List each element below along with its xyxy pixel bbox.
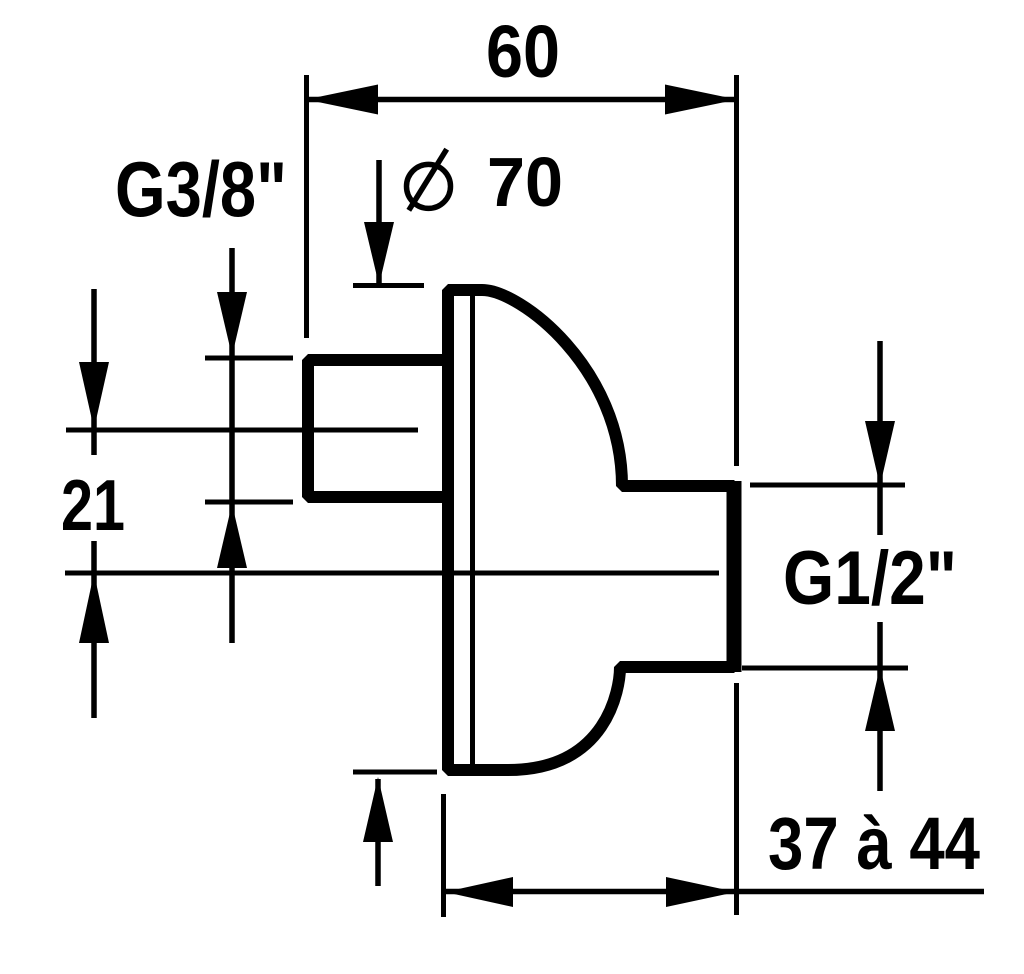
- svg-text:21: 21: [61, 466, 125, 546]
- svg-text:G3/8": G3/8": [115, 145, 287, 233]
- svg-text:60: 60: [486, 10, 560, 93]
- svg-text:G1/2": G1/2": [783, 536, 957, 621]
- svg-text:70: 70: [487, 143, 563, 221]
- svg-text:37 à 44: 37 à 44: [768, 802, 980, 885]
